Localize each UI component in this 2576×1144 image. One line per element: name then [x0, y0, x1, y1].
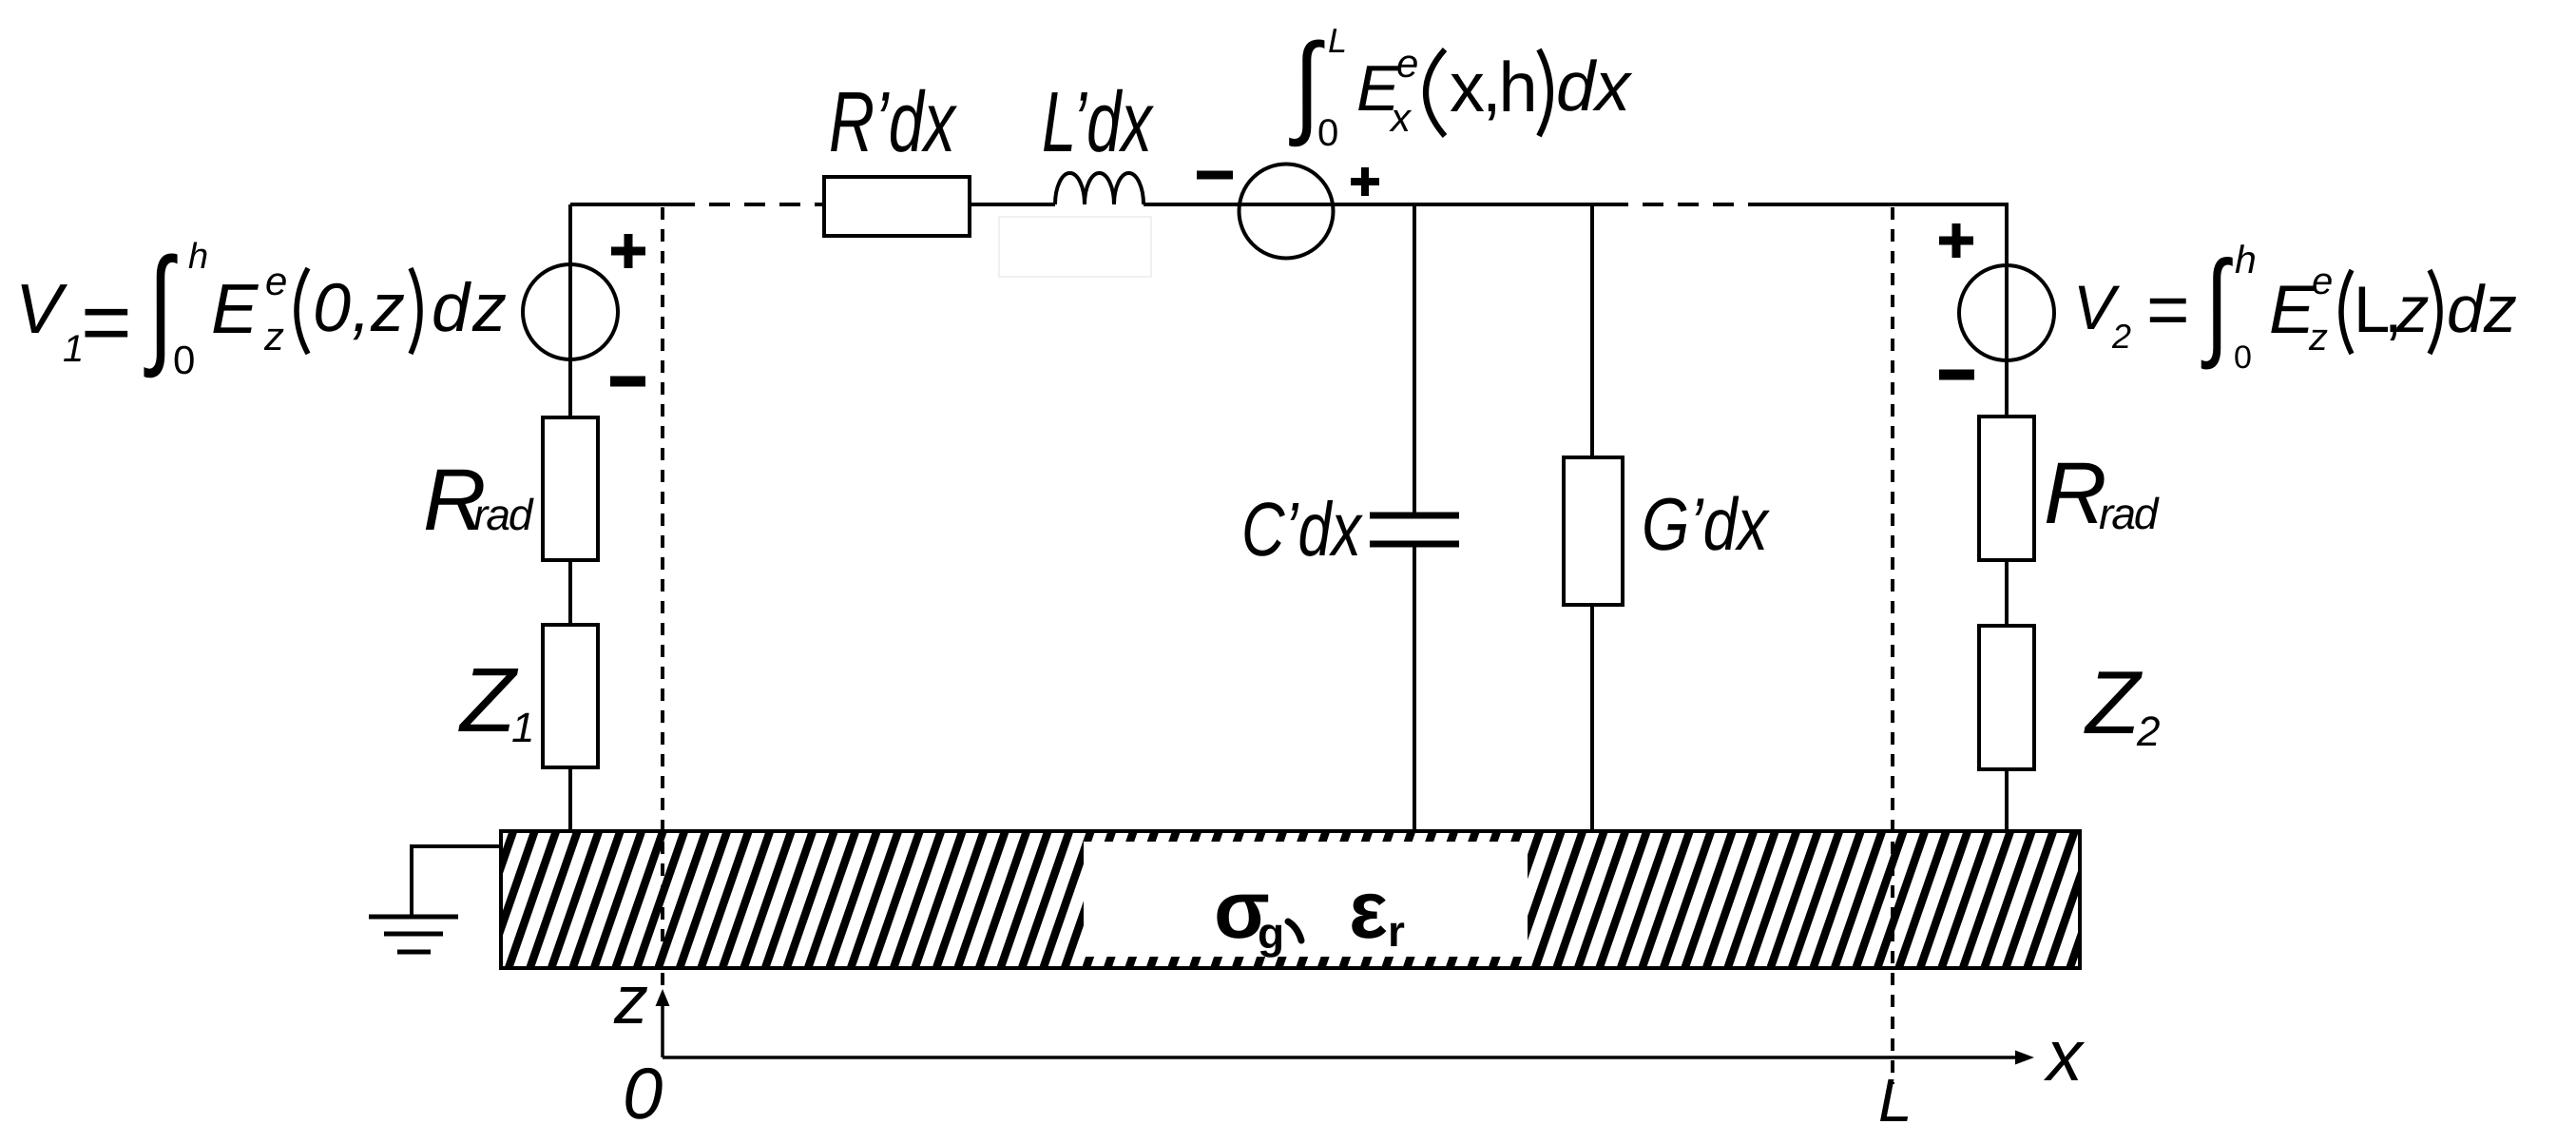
resistor R'dx [824, 177, 970, 236]
polarity minus (top source) [1197, 171, 1233, 180]
svg-text:R: R [2044, 445, 2106, 542]
svg-text:L’dx: L’dx [1042, 75, 1154, 170]
svg-text:L: L [1328, 21, 1347, 60]
svg-text:2: 2 [2136, 708, 2160, 755]
label top integral formula [1289, 21, 1633, 154]
svg-text:1: 1 [511, 705, 534, 751]
wire L'dx to node over source [1144, 203, 1607, 206]
wire (dashed) top-left segment [674, 203, 824, 206]
svg-text:e: e [1396, 41, 1418, 86]
label Rrad right [2044, 445, 2160, 542]
svg-text:g: g [1258, 908, 1284, 958]
resistor Rrad left [543, 417, 598, 560]
svg-text:=: = [81, 274, 132, 371]
artifact faint box under inductor [999, 217, 1151, 277]
label C'dx [1241, 487, 1363, 572]
ground symbol [369, 846, 501, 952]
svg-text:R’dx: R’dx [829, 75, 957, 170]
label Rrad left [423, 452, 534, 549]
label x [2043, 1016, 2086, 1096]
wire R'dx to L'dx [970, 203, 1055, 206]
svg-text:r: r [1388, 906, 1405, 956]
svg-text:dz: dz [432, 270, 509, 346]
svg-text:Z: Z [458, 650, 519, 751]
label sigma_g epsilon_r [1214, 864, 1405, 958]
svg-text:=: = [2146, 267, 2190, 351]
svg-text:,: , [352, 270, 371, 346]
svg-text:L: L [1878, 1066, 1913, 1134]
svg-text:2: 2 [2111, 317, 2131, 356]
resistor Z1 [543, 625, 598, 767]
svg-text:z: z [2395, 273, 2430, 346]
wire top-right corner [1757, 204, 2007, 266]
polarity plus (V2) [1939, 223, 1973, 258]
dashed line x=0 [661, 207, 664, 993]
z axis [656, 989, 670, 1057]
label Z1 [458, 650, 534, 751]
svg-text:V: V [15, 269, 68, 348]
svg-text:e: e [2312, 261, 2333, 302]
voltage source V1 [523, 264, 618, 359]
polarity minus (V2) [1939, 370, 1974, 380]
polarity minus (V1) [610, 377, 645, 387]
svg-text:dz: dz [2447, 272, 2517, 346]
svg-text:z: z [2308, 317, 2328, 359]
svg-text:h: h [2235, 238, 2257, 281]
svg-text:ε: ε [1349, 864, 1388, 956]
svg-text:dx: dx [1556, 47, 1633, 126]
svg-text:x,h: x,h [1450, 48, 1535, 126]
dashed line x=L [1891, 207, 1894, 1084]
wire top-left corner node [570, 203, 674, 206]
label G'dx [1642, 482, 1770, 566]
svg-text:h: h [188, 237, 208, 277]
svg-text:x: x [2043, 1016, 2086, 1096]
svg-text:G’dx: G’dx [1642, 482, 1770, 566]
svg-text:e: e [265, 259, 287, 303]
svg-text:rad: rad [2099, 489, 2160, 538]
capacitor C'dx [1370, 204, 1459, 831]
svg-text:0: 0 [623, 1054, 663, 1134]
resistor Rrad right [1979, 417, 2034, 560]
label L (x=L) [1878, 1066, 1913, 1134]
svg-text:0: 0 [2234, 339, 2252, 376]
svg-text:C’dx: C’dx [1241, 487, 1363, 572]
svg-text:z: z [613, 962, 648, 1038]
inductor L'dx [1055, 173, 1144, 204]
voltage source V2 [1959, 265, 2054, 360]
resistor G'dx [1564, 204, 1623, 831]
resistor Z2 [1979, 626, 2034, 769]
svg-text:rad: rad [473, 490, 534, 539]
label V1 formula [15, 232, 509, 382]
label L'dx [1042, 75, 1154, 170]
polarity plus (top source) [1351, 167, 1379, 196]
svg-text:E: E [211, 269, 260, 348]
voltage source (induced EMF) top [1240, 165, 1334, 259]
svg-text:∫: ∫ [2201, 238, 2234, 370]
label 0 (origin) [623, 1054, 663, 1134]
wire (dashed) top-right segment [1607, 203, 1757, 206]
x axis [663, 1051, 2034, 1065]
svg-text:0: 0 [313, 270, 351, 346]
svg-text:0: 0 [1317, 112, 1338, 154]
ground plane bar [501, 831, 2080, 968]
wire left column [568, 204, 572, 833]
svg-text:z: z [263, 314, 284, 359]
polarity plus (V1) [611, 234, 645, 268]
svg-text:0: 0 [173, 338, 195, 382]
svg-text:z: z [370, 270, 405, 346]
wire right column [2005, 204, 2009, 833]
svg-text:Z: Z [2084, 652, 2143, 752]
label Z2 [2084, 652, 2160, 755]
svg-text:x: x [1389, 95, 1413, 140]
label z [613, 962, 648, 1038]
label V2 formula [2073, 238, 2517, 376]
label R'dx [829, 75, 957, 170]
